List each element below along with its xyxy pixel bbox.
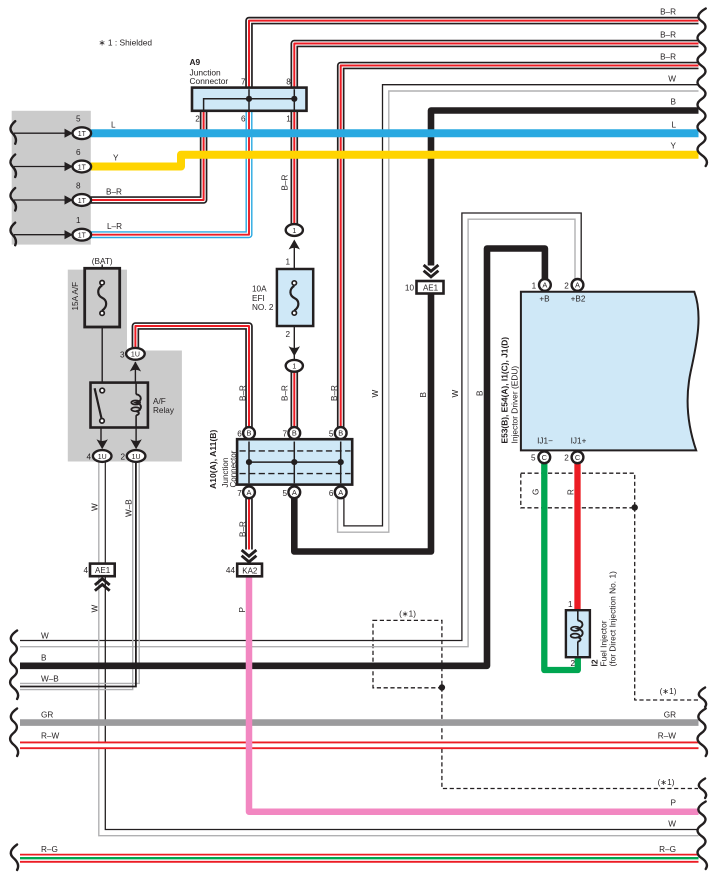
svg-text:B: B [476,390,485,396]
svg-text:5: 5 [282,489,287,498]
A10 pin 7(B) [288,427,300,439]
svg-text:W: W [451,390,460,398]
arrow harness row 6 [65,162,74,171]
svg-text:6: 6 [241,115,246,124]
wire harness row 1-LR lead [14,234,65,236]
svg-text:4: 4 [83,566,88,575]
svg-text:8: 8 [286,77,291,86]
fuel injector I2 box [566,610,590,657]
svg-text:W: W [91,503,100,511]
junction connector A9 box [192,88,307,111]
wire harness row 8-BR lead [14,199,65,201]
wire B-R rail 3 from right edge to A10 pin 5(B) [341,66,699,428]
frayed end right shield low [699,779,706,799]
svg-text:L: L [111,120,116,129]
svg-text:E53(B), E54(A), I1(C), J1(D): E53(B), E54(A), I1(C), J1(D) [500,337,510,444]
svg-text:∗ 1 : Shielded: ∗ 1 : Shielded [99,38,153,48]
svg-text:W: W [668,819,676,828]
svg-text:1T: 1T [78,131,87,138]
svg-text:15A A/F: 15A A/F [71,282,80,311]
svg-text:B–R: B–R [106,188,122,197]
wire harness row 6-Y lead [14,166,65,168]
svg-text:L–R: L–R [107,222,122,231]
svg-text:+B2: +B2 [571,295,586,304]
wire B from right edge to connector AE1 pin 10 [431,111,699,266]
shield drain junction dot G/R [632,504,638,510]
svg-text:B–R: B–R [660,53,676,62]
svg-text:G: G [532,489,541,495]
svg-text:B–R: B–R [239,385,248,401]
wire harness row 5-L lead [14,132,65,134]
svg-text:GR: GR [664,710,676,719]
A10 bus dot 3 [338,459,344,465]
svg-text:C: C [575,453,581,462]
svg-text:Injector Driver (EDU): Injector Driver (EDU) [510,366,520,444]
A10 bus dot 2 [291,459,297,465]
svg-text:8: 8 [76,181,81,190]
frayed ends right bottom group [698,802,707,870]
svg-text:6: 6 [237,430,242,439]
wire W from left edge rail to EDU pin +B2 [20,213,581,641]
wire BAT fuse feed [101,265,103,281]
svg-text:2: 2 [285,330,290,339]
EDU pin +B2 circle [572,279,584,291]
connector oval 1 (above EFI fuse) [286,224,303,236]
connector AE1 pin 10 [417,281,444,294]
svg-text:3: 3 [120,350,125,359]
svg-text:R–W: R–W [41,732,59,741]
connector 1T row 6 [73,161,92,173]
svg-text:6: 6 [76,148,81,157]
svg-text:R–W: R–W [658,732,676,741]
svg-text:W: W [371,390,380,398]
connector oval 1 (below EFI fuse) [286,360,303,372]
shield box (*1) around W and B wires [373,620,442,687]
A10 pin 6(B) [243,427,255,439]
shield drain wire (dashed) G/R to right edge [635,508,698,701]
svg-text:P: P [238,607,247,613]
wire G (green) EDU IJ1- to injector pin 2 [544,463,578,670]
wire EFI fuse bottom lead [293,313,295,359]
svg-text:(BAT): (BAT) [92,257,113,266]
frayed end harness row 8 [10,188,15,211]
fuse 15A A/F [85,268,120,327]
svg-text:6: 6 [329,489,334,498]
relay A/F box [91,383,148,428]
frayed ends left GR/R-W [10,709,18,757]
svg-text:AE1: AE1 [423,284,439,293]
wire relay contacts leads [100,428,102,442]
injector coil [577,611,579,621]
wire EFI fuse top lead [293,243,295,283]
svg-text:7: 7 [241,77,246,86]
connector 1T row 8 [73,194,92,206]
svg-text:IJ1+: IJ1+ [571,437,587,446]
svg-text:1: 1 [568,600,573,609]
svg-text:IJ1−: IJ1− [537,437,553,446]
svg-text:1T: 1T [78,164,87,171]
arrow into 4(1U) [97,439,108,449]
A10 pin 5(B) [335,427,347,439]
svg-text:1T: 1T [78,198,87,205]
svg-text:W: W [668,75,676,84]
wire B-R rail 2 from right edge to A9 pin 8 [294,44,698,87]
svg-text:Connector: Connector [190,76,229,86]
svg-text:7: 7 [282,430,287,439]
frayed end harness row 6 [10,155,15,178]
svg-text:B–R: B–R [281,174,290,190]
svg-text:NO. 2: NO. 2 [252,303,274,312]
harness block (top left) [12,111,91,245]
svg-text:B–R: B–R [239,521,248,537]
svg-text:W–B: W–B [41,674,59,683]
connector 4(1U) [93,450,112,462]
wire B from left edge rail to EDU pin +B [20,249,545,666]
relay switch contact [100,388,105,393]
svg-text:2: 2 [564,281,569,290]
svg-text:C: C [542,453,548,462]
frayed end right shield mid [699,688,706,708]
relay coil [135,383,137,395]
arrow into 2(1U) [130,439,141,449]
wire 15A fuse to relay [101,315,103,383]
svg-text:Y: Y [671,142,677,151]
wire P (pink) from KA2 to right edge [249,576,699,811]
svg-text:W: W [91,605,100,613]
svg-text:10: 10 [405,284,415,293]
svg-text:R–G: R–G [41,845,58,854]
svg-text:1: 1 [286,115,291,124]
svg-text:A9: A9 [190,57,201,67]
frayed end harness row 1 [10,223,15,246]
A9 internal bus [204,99,295,110]
svg-text:B: B [419,392,428,398]
wire Y (yellow) from harness to right edge [91,155,699,167]
arrow into 3(1U) [130,362,141,372]
connector KA2 pin 44 [237,564,262,577]
A10 internal columns [248,442,250,484]
wire B-R A9 pin 1 to EFI fuse connector [290,112,298,225]
svg-text:W–B: W–B [124,499,133,517]
A10 bus dot 1 [246,459,252,465]
svg-text:(∗1): (∗1) [658,778,675,787]
A10 dashed internal lines [240,450,351,452]
frayed ends left W/B/WB [10,631,18,700]
svg-text:B–R: B–R [281,385,290,401]
chevron into AE1 pin 4 [95,579,110,585]
chevron into AE1 pin 10 [424,265,439,271]
wire B from AE1 pin 10 to A10 pin 5(A) [294,294,431,552]
svg-text:2: 2 [120,453,125,462]
svg-text:B–R: B–R [330,385,339,401]
svg-text:+B: +B [539,295,550,304]
svg-text:B: B [292,429,297,438]
svg-text:A10(A), A11(B): A10(A), A11(B) [208,429,218,489]
svg-text:KA2: KA2 [242,566,258,575]
svg-text:Relay: Relay [153,406,175,415]
svg-text:B: B [338,429,343,438]
svg-text:10A: 10A [252,285,267,294]
svg-text:1: 1 [532,281,537,290]
svg-text:(for Direct Injection No. 1): (for Direct Injection No. 1) [608,571,618,667]
svg-text:P: P [671,799,677,808]
wire W-B from A/F relay pin 2(1U) to left edge rail [20,462,133,690]
svg-text:AE1: AE1 [95,566,111,575]
svg-text:EFI: EFI [252,294,265,303]
svg-text:(∗1): (∗1) [399,609,416,618]
wire W from right edge down to junction connector pin 6(A) [344,85,699,526]
arrow harness row 8 [65,195,74,204]
wire B-R rail 1 from right edge to A9 pin 7 [249,21,699,87]
wire relay coil to 3(1U) [134,362,136,383]
svg-text:B: B [41,654,47,663]
svg-text:1U: 1U [131,352,140,359]
svg-text:R: R [567,489,576,495]
A10 pin 5(A) [288,486,300,498]
wire B-R A10 pin 7(A) to KA2 [245,498,253,549]
svg-text:5: 5 [76,115,81,124]
svg-text:4: 4 [86,453,91,462]
EDU pin +B circle [539,279,551,291]
arrow harness row 5 [65,129,74,138]
harness block (A/F relay area) [68,270,182,462]
wire B-R harness row 8 to A9 pin 2 [91,112,204,201]
svg-text:1: 1 [285,258,290,267]
junction connector A10(A) A11(B) box [237,439,352,484]
connector 1T row 5 [73,127,92,139]
svg-text:L: L [671,120,676,129]
connector 1T row 1 [73,229,92,241]
svg-text:2: 2 [195,115,200,124]
svg-text:W: W [41,631,49,640]
shield box (*1) around G and R wires [521,473,635,508]
chevron into KA2 [242,550,257,556]
A9 bus junction dot 2 [291,96,297,102]
wire GR rail [20,719,699,726]
arrow into oval (EFI fuse feed) [289,240,300,250]
A10 pin 7(A) [243,486,255,498]
wire L-R harness row 1 to A9 pin 6 [91,112,249,235]
frayed ends right GR/R-W [698,709,707,757]
wire B-R EFI fuse to A10 pin 7(B) [290,372,298,428]
wire injector pin 1 lead [577,604,579,612]
connector 2(1U) [127,450,146,462]
svg-text:1: 1 [76,216,81,225]
svg-text:A: A [247,488,252,497]
svg-text:1T: 1T [78,233,87,240]
fuse 10A EFI NO.2 [277,269,313,326]
A9 bus junction dot 1 [246,96,252,102]
svg-text:B: B [671,97,677,106]
frayed ends right top group [698,9,707,167]
svg-text:B–R: B–R [660,31,676,40]
svg-text:Connector: Connector [229,450,238,487]
arrow into oval (EFI fuse out) [289,346,300,356]
frayed end harness row 5 [10,121,15,144]
svg-text:A: A [338,488,343,497]
EDU pin IJ1- circle [538,451,550,463]
svg-text:A: A [542,281,547,290]
svg-text:B–R: B–R [660,8,676,17]
wire R-W rail [20,741,699,749]
svg-text:(∗1): (∗1) [660,687,677,696]
connector AE1 pin 4 [90,564,115,577]
wire B-R A/F relay 3(1U) to A10 pin 6(B) [135,326,249,427]
A10 pin 6(A) [335,486,347,498]
svg-text:A/F: A/F [153,397,166,406]
wire L (blue) from harness to right edge [91,129,699,137]
svg-text:1: 1 [292,228,296,235]
svg-text:5: 5 [531,454,536,463]
wire W from A/F relay pin 4(1U) to AE1 connector [98,462,100,564]
svg-text:5: 5 [329,430,334,439]
svg-text:44: 44 [226,566,236,575]
svg-text:A: A [575,281,580,290]
A10 internal bus [249,461,341,463]
arrow harness row 1 [65,230,74,239]
svg-text:1: 1 [292,364,296,371]
frayed end left R-G [11,845,18,871]
wire R (red) EDU IJ1+ to injector pin 1 [574,463,580,611]
wire W from AE1 connector to bottom rail and right edge [99,576,699,836]
wire injector pin 2 lead [577,655,579,662]
wire R-G rail [20,854,699,863]
shield drain junction dot [439,684,445,690]
svg-text:GR: GR [41,710,53,719]
svg-text:2: 2 [564,454,569,463]
svg-text:A: A [292,488,297,497]
svg-text:7: 7 [237,489,242,498]
EDU pin IJ1+ circle [572,451,584,463]
shield drain wire (dashed) to right edge [442,688,698,789]
svg-text:B: B [247,429,252,438]
svg-text:1U: 1U [132,454,141,461]
svg-text:1U: 1U [98,454,107,461]
svg-text:R–G: R–G [659,845,676,854]
EDU injector driver box [521,292,699,451]
svg-text:2: 2 [570,659,575,668]
svg-text:Y: Y [113,154,119,163]
connector 3(1U) [126,348,145,360]
